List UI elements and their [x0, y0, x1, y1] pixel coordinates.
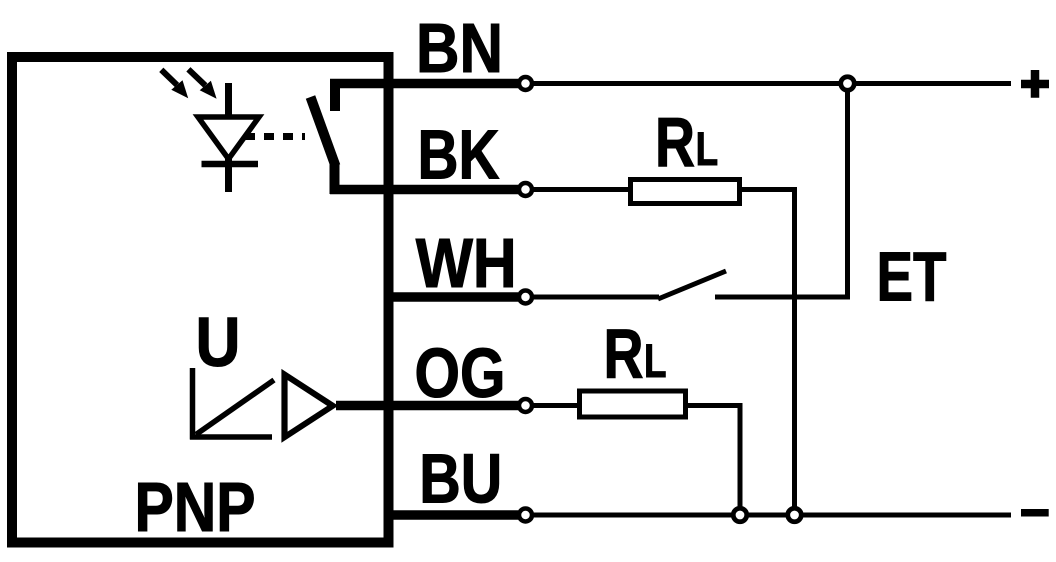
wire OG thin to resistor R2 [532, 403, 578, 408]
wire BK thick (pin to terminal) [330, 185, 518, 195]
svg-text:R: R [655, 103, 695, 181]
node B (R2 / BU junction) [733, 508, 747, 522]
sensor box outline [12, 57, 389, 543]
photodiode D1 cathode bar [202, 161, 259, 168]
wire WH thick (pin to terminal) [388, 292, 518, 302]
svg-text:OG: OG [415, 334, 506, 412]
wire BK thin to resistor R1 [532, 187, 629, 192]
terminal BK [519, 183, 532, 196]
ET switch right contact wire [715, 295, 850, 300]
resistor R2 body [580, 391, 686, 417]
svg-text:BN: BN [416, 9, 503, 87]
U axes graph: vertical axis [190, 368, 196, 440]
photodiode D1 top lead [225, 83, 232, 117]
amplifier triangle U1 [281, 369, 338, 443]
terminal BN [519, 77, 532, 90]
ET switch blade [658, 271, 726, 299]
U axes graph: horizontal axis [190, 434, 272, 440]
wire resistor R2 to corner and down to BU [687, 406, 740, 516]
svg-text:PNP: PNP [135, 468, 256, 546]
output switch lower stub [330, 163, 340, 194]
output switch blade [311, 97, 336, 166]
wire from node A down to ET switch [845, 90, 850, 300]
dashed link photodiode to switch [245, 133, 305, 140]
terminal BU [519, 509, 532, 522]
node A (BN / ET junction) [841, 77, 855, 91]
- supply symbol [1021, 509, 1049, 517]
svg-text:BK: BK [418, 116, 500, 194]
wire BN thick (pin to terminal) [330, 79, 518, 89]
svg-text:R: R [604, 315, 644, 393]
U axes graph: ramp line [196, 380, 274, 435]
terminal OG [519, 399, 532, 412]
photodiode D1 triangle [198, 117, 259, 159]
node C (R1 / BU junction) [788, 508, 802, 522]
svg-text:WH: WH [416, 224, 517, 302]
wire BU thick (pin to terminal) [388, 510, 518, 520]
resistor R1 body [631, 180, 740, 204]
wire OG thick (amp output to terminal) [336, 401, 518, 411]
terminal WH [519, 291, 532, 304]
wire BN thin to + [532, 81, 1011, 86]
output switch upper stub [330, 84, 340, 112]
photodiode light arrow 1 [161, 70, 188, 98]
wire WH thin to ET switch [532, 295, 659, 300]
wire resistor R1 to corner and down to BU [741, 190, 795, 516]
svg-text:U: U [196, 303, 241, 381]
svg-text:BU: BU [419, 440, 502, 518]
+ supply symbol [1021, 70, 1049, 98]
svg-text:ET: ET [877, 238, 947, 316]
svg-text:L: L [644, 334, 667, 387]
photodiode light arrow 2 [188, 69, 216, 98]
photodiode D1 bottom lead [225, 157, 232, 192]
svg-text:L: L [696, 122, 719, 175]
wire BU thin to - [532, 513, 1011, 518]
